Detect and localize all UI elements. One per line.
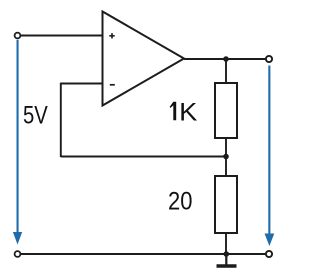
pin label + (non-inverting) <box>109 33 114 38</box>
terminal: bottom-right <box>266 251 272 257</box>
wire: non-inverting input from left terminal to op-amp <box>20 35 103 37</box>
resistor R1 1K <box>215 83 237 138</box>
5V source indicator arrow (left, blue) <box>13 40 22 245</box>
svg-text:5V: 5V <box>23 102 48 130</box>
terminal: bottom-left <box>15 251 21 257</box>
node: ground rail junction <box>224 251 230 257</box>
wire: feedback horizontal to divider node <box>61 156 226 158</box>
svg-text:20: 20 <box>168 188 192 216</box>
wire: output node down to resistor 1K <box>225 59 227 83</box>
wire: inverting input stub <box>61 83 103 85</box>
wire: divider node down to resistor 20 <box>225 157 227 177</box>
wire: bottom rail <box>20 253 265 255</box>
resistor R2 20 <box>215 176 237 233</box>
terminal: top-left input <box>15 33 21 39</box>
node: divider junction <box>223 154 229 160</box>
output indicator arrow (right, blue) <box>265 66 275 247</box>
wire: 1K bottom to divider node <box>225 138 227 157</box>
op-amp U1 <box>103 12 185 106</box>
wire: feedback vertical segment <box>60 83 62 157</box>
value label 1K <box>170 102 177 121</box>
svg-text:K: K <box>179 98 198 126</box>
node: output junction <box>223 56 229 62</box>
ground <box>217 254 237 266</box>
wire: 20 bottom to ground rail <box>225 233 227 254</box>
wire: op-amp output to right terminal <box>184 58 266 60</box>
terminal: top-right output <box>266 56 272 62</box>
pin label - (inverting) <box>110 84 115 86</box>
